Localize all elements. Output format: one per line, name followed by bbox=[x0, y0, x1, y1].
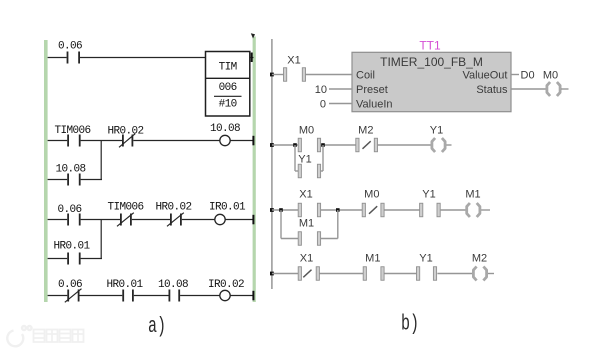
svg-text:ValueOut: ValueOut bbox=[462, 70, 507, 82]
svg-text:M2: M2 bbox=[358, 125, 373, 137]
svg-text:HR0.02: HR0.02 bbox=[107, 126, 143, 138]
wire branch 10.08 bbox=[48, 179, 102, 181]
branch verticals rung3 bbox=[281, 210, 338, 239]
pin Status wire bbox=[476, 84, 546, 96]
rung3 right rail tick bbox=[252, 215, 254, 225]
timer TIM box bbox=[206, 52, 250, 117]
svg-text:Status: Status bbox=[476, 84, 508, 96]
coil IR0.01 rung3 bbox=[209, 202, 246, 225]
contact Y1 rung3 bbox=[420, 189, 441, 217]
watermark logo bbox=[7, 326, 31, 346]
wire Y1 branch rung2 bbox=[295, 170, 323, 172]
wire M1 branch rung3 bbox=[281, 238, 338, 240]
coil M1 rung3 bbox=[465, 189, 480, 218]
wire rung1 (a) bbox=[48, 57, 206, 59]
svg-text:10.08: 10.08 bbox=[210, 123, 240, 135]
svg-text:0.06: 0.06 bbox=[57, 204, 81, 216]
wire rung2 (a) bbox=[48, 140, 254, 142]
pin Preset with value 10 bbox=[315, 84, 388, 96]
wire rung3 (b) bbox=[272, 209, 490, 211]
svg-text:10.08: 10.08 bbox=[158, 279, 188, 291]
contact 10.08 rung4 bbox=[158, 279, 188, 302]
branch junction dots rung2 bbox=[293, 143, 325, 147]
svg-text:TIM: TIM bbox=[219, 62, 237, 74]
coil M2 rung4 bbox=[472, 253, 487, 281]
watermark text bbox=[34, 330, 84, 343]
svg-text:Y1: Y1 bbox=[430, 125, 443, 137]
svg-text:HR0.02: HR0.02 bbox=[155, 202, 191, 214]
power rail (b) bbox=[271, 39, 273, 289]
coil M0 (Status output) bbox=[543, 70, 569, 97]
svg-text:0: 0 bbox=[320, 99, 326, 111]
contact HR0.02 NC rung3 bbox=[155, 202, 191, 227]
right rail top tick bbox=[251, 33, 255, 38]
svg-text:006: 006 bbox=[219, 82, 237, 94]
svg-text:IR0.01: IR0.01 bbox=[209, 202, 246, 214]
pin ValueIn with value 0 bbox=[320, 99, 393, 111]
svg-text:X1: X1 bbox=[287, 55, 300, 67]
contact 10.08 branch bbox=[55, 164, 85, 186]
coil Y1 rung2 bbox=[430, 125, 445, 153]
svg-text:M1: M1 bbox=[465, 189, 480, 201]
contact X1 NC rung4 bbox=[298, 253, 319, 281]
wire branch HR0.01 bbox=[48, 258, 102, 260]
svg-text:M2: M2 bbox=[472, 253, 487, 265]
branch junction vertical rung2 bbox=[100, 141, 102, 179]
contact M1 rung4 bbox=[363, 253, 384, 281]
contact M0 NC rung3 bbox=[362, 189, 384, 217]
branch verticals rung2 bbox=[295, 145, 323, 171]
svg-text:M1: M1 bbox=[365, 253, 380, 265]
svg-text:X1: X1 bbox=[299, 189, 312, 201]
junction dot rung1 (b) bbox=[270, 73, 274, 77]
svg-text:Preset: Preset bbox=[356, 84, 388, 96]
function block TIMER_100_FB_M bbox=[352, 52, 511, 111]
svg-text:Y1: Y1 bbox=[298, 154, 311, 166]
svg-text:TIM006: TIM006 bbox=[107, 202, 143, 214]
svg-text:TIMER_100_FB_M: TIMER_100_FB_M bbox=[380, 55, 483, 69]
left power rail (a) bbox=[44, 40, 48, 302]
contact TIM006 rung2 bbox=[54, 125, 90, 147]
svg-text:X1: X1 bbox=[300, 253, 313, 265]
svg-text:Y1: Y1 bbox=[422, 189, 435, 201]
contact TIM006 NC rung3 bbox=[107, 202, 143, 227]
contact 0.06 NC rung4 bbox=[58, 279, 82, 302]
svg-text:ValueIn: ValueIn bbox=[356, 99, 393, 111]
contact Y1 branch rung2 bbox=[298, 154, 320, 178]
svg-text:IR0.02: IR0.02 bbox=[208, 279, 244, 291]
contact HR0.02 NC rung2 bbox=[107, 126, 143, 148]
contact X1 rung1 (b) bbox=[284, 55, 306, 82]
svg-text:b): b) bbox=[401, 312, 419, 337]
svg-text:M1: M1 bbox=[299, 218, 314, 230]
coil 10.08 rung2 bbox=[210, 123, 240, 146]
contact HR0.01 rung4 bbox=[106, 279, 143, 302]
contact X1 rung3 bbox=[298, 189, 320, 217]
wire TIM box to right rail bbox=[250, 53, 254, 63]
rung4 right rail tick bbox=[252, 291, 254, 301]
svg-text:10.08: 10.08 bbox=[55, 164, 85, 176]
svg-text:D0: D0 bbox=[521, 70, 535, 82]
contact M1 branch rung3 bbox=[298, 218, 320, 246]
contact 0.06 rung1 bbox=[58, 41, 82, 64]
contact Y1 rung4 bbox=[417, 253, 437, 281]
svg-text:#10: #10 bbox=[219, 99, 237, 111]
svg-text:M0: M0 bbox=[543, 70, 558, 82]
contact M0 rung2 bbox=[298, 125, 320, 152]
svg-text:0.06: 0.06 bbox=[58, 279, 82, 291]
svg-text:0.06: 0.06 bbox=[58, 41, 82, 53]
wire rung4 (a) bbox=[48, 295, 254, 297]
branch junction vertical rung3 bbox=[100, 219, 102, 258]
right power rail (a) bbox=[253, 37, 256, 303]
svg-text:HR0.01: HR0.01 bbox=[53, 241, 90, 253]
rung2 right rail tick bbox=[252, 136, 254, 146]
svg-text:a): a) bbox=[148, 314, 166, 339]
wire rung2 (b) bbox=[272, 144, 452, 146]
contact M2 NC rung2 bbox=[356, 125, 378, 152]
svg-text:M0: M0 bbox=[364, 189, 379, 201]
junction dot rung3 (b) bbox=[270, 208, 274, 212]
pin ValueOut to D0 bbox=[462, 70, 534, 82]
svg-text:Y1: Y1 bbox=[419, 253, 432, 265]
svg-text:TT1: TT1 bbox=[419, 39, 441, 53]
coil IR0.02 rung4 bbox=[208, 279, 244, 301]
junction dot rung4 (b) bbox=[270, 272, 274, 276]
contact 0.06 rung3 bbox=[57, 204, 81, 226]
svg-text:M0: M0 bbox=[299, 125, 314, 137]
wire rung1 (b) bbox=[272, 74, 352, 76]
svg-text:HR0.01: HR0.01 bbox=[106, 279, 143, 291]
contact HR0.01 branch bbox=[53, 241, 90, 265]
svg-text:TIM006: TIM006 bbox=[54, 125, 90, 137]
branch junction dots rung3 bbox=[279, 208, 339, 212]
wire rung3 (a) bbox=[48, 219, 254, 221]
wire rung4 (b) bbox=[272, 273, 494, 275]
svg-text:Coil: Coil bbox=[356, 70, 375, 82]
svg-text:10: 10 bbox=[315, 84, 327, 96]
junction dot rung2 (b) bbox=[270, 143, 274, 147]
